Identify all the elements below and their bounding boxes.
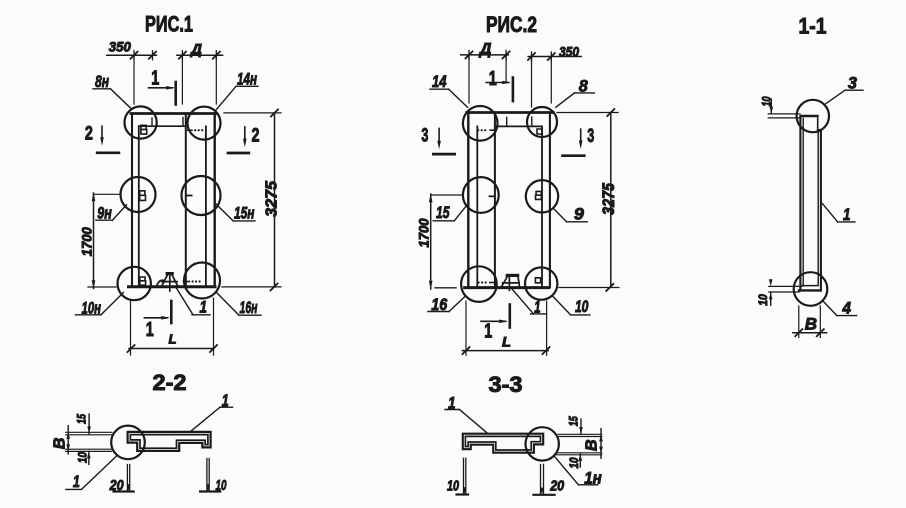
svg-text:14: 14 <box>432 72 447 91</box>
svg-text:1-1: 1-1 <box>799 14 827 39</box>
svg-text:15: 15 <box>77 414 89 424</box>
svg-text:4: 4 <box>842 299 852 318</box>
svg-text:В: В <box>52 438 69 450</box>
svg-text:10: 10 <box>762 96 774 106</box>
svg-text:1700: 1700 <box>417 218 432 247</box>
svg-text:15: 15 <box>436 203 450 222</box>
svg-text:1: 1 <box>146 319 154 341</box>
svg-text:20: 20 <box>109 478 124 494</box>
svg-text:10: 10 <box>77 451 89 463</box>
svg-text:10: 10 <box>575 297 589 316</box>
svg-text:10: 10 <box>569 457 581 469</box>
svg-text:20: 20 <box>549 479 564 495</box>
svg-text:1: 1 <box>489 68 497 90</box>
svg-text:L: L <box>502 334 511 350</box>
svg-text:9н: 9н <box>97 203 112 222</box>
svg-text:1: 1 <box>199 298 207 317</box>
svg-text:1: 1 <box>484 321 492 343</box>
svg-text:10: 10 <box>216 478 227 494</box>
svg-text:15: 15 <box>568 416 580 426</box>
svg-text:2: 2 <box>252 125 260 147</box>
svg-text:15н: 15н <box>234 203 255 222</box>
svg-text:РИС.2: РИС.2 <box>486 12 537 37</box>
svg-text:3275: 3275 <box>599 183 618 215</box>
svg-text:2-2: 2-2 <box>153 370 187 395</box>
svg-text:РИС.1: РИС.1 <box>145 12 193 37</box>
svg-text:3: 3 <box>421 124 428 146</box>
svg-text:1: 1 <box>73 472 80 491</box>
svg-text:1: 1 <box>843 205 851 224</box>
svg-text:9: 9 <box>574 205 585 224</box>
svg-text:2: 2 <box>85 123 93 145</box>
svg-text:В: В <box>805 315 817 334</box>
svg-text:16н: 16н <box>240 298 258 317</box>
svg-text:3-3: 3-3 <box>489 372 523 397</box>
svg-text:10: 10 <box>758 294 770 306</box>
svg-text:1: 1 <box>151 68 159 90</box>
svg-text:L: L <box>169 332 177 347</box>
svg-text:350: 350 <box>109 40 131 55</box>
svg-text:10: 10 <box>447 479 459 495</box>
svg-text:3275: 3275 <box>264 180 281 217</box>
svg-text:В: В <box>584 439 601 451</box>
svg-text:3: 3 <box>587 125 594 147</box>
svg-text:1700: 1700 <box>80 227 95 256</box>
